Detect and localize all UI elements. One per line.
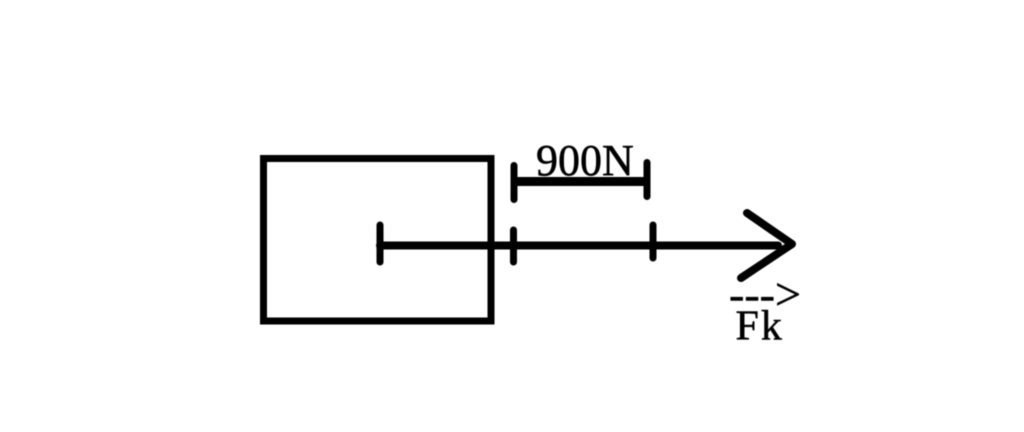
- block (box): [264, 159, 492, 322]
- force arrow shaft: [380, 242, 778, 250]
- svg-text:900N: 900N: [536, 136, 634, 185]
- dimension bar 900N: [516, 177, 645, 186]
- tick at arrow start: [377, 225, 384, 262]
- tick right: [650, 225, 657, 258]
- dimension left tick: [511, 166, 518, 200]
- arrowhead: [741, 213, 792, 278]
- tick at box edge: [510, 230, 517, 262]
- dimension right tick: [644, 163, 651, 197]
- svg-text:Fk: Fk: [736, 304, 784, 350]
